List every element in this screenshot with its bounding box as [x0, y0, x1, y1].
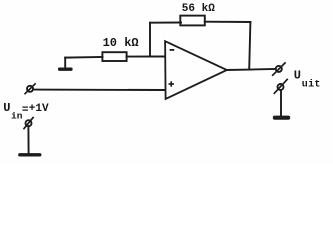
- wire op-amp output: [227, 69, 276, 70]
- wire output lower terminal to ground: [280, 90, 282, 115]
- terminal output lower slash: [274, 79, 287, 93]
- wire non-inverting input: [34, 89, 165, 91]
- resistor R2 56 kOhm body: [180, 16, 205, 26]
- ground (inverting network) vertical stub: [64, 58, 66, 68]
- terminal input lower slash: [24, 118, 33, 129]
- terminal output upper circle: [276, 66, 282, 72]
- terminal input lower circle: [26, 120, 32, 126]
- wire ground to R1: [65, 56, 102, 59]
- op-amp U1 triangle: [165, 41, 227, 99]
- svg-text:10 kΩ: 10 kΩ: [103, 36, 139, 50]
- terminal output upper slash: [273, 63, 285, 75]
- op-amp minus sign: [170, 49, 175, 51]
- svg-text:uit: uit: [302, 79, 321, 91]
- wire feedback right vertical: [249, 22, 250, 69]
- ground bar (inverting network): [58, 68, 73, 71]
- terminal output lower circle: [278, 84, 284, 90]
- terminal input upper slash: [25, 84, 35, 94]
- svg-text:56 kΩ: 56 kΩ: [182, 3, 215, 15]
- resistor R1 10 kOhm body: [102, 52, 126, 61]
- wire R1 to inverting input (node with feedback tap): [127, 56, 165, 58]
- svg-text:+1V: +1V: [29, 103, 49, 115]
- wire input lower terminal to ground: [27, 126, 29, 153]
- svg-text:U: U: [3, 101, 10, 115]
- wire feedback left vertical: [149, 23, 151, 57]
- wire feedback top left segment: [150, 22, 181, 24]
- ground bar (input source): [18, 153, 41, 156]
- svg-text:U: U: [294, 68, 301, 82]
- wire feedback top right segment: [205, 21, 251, 23]
- ground bar (output): [273, 116, 290, 120]
- terminal input upper circle: [27, 86, 33, 92]
- op-amp plus sign: [169, 81, 175, 86]
